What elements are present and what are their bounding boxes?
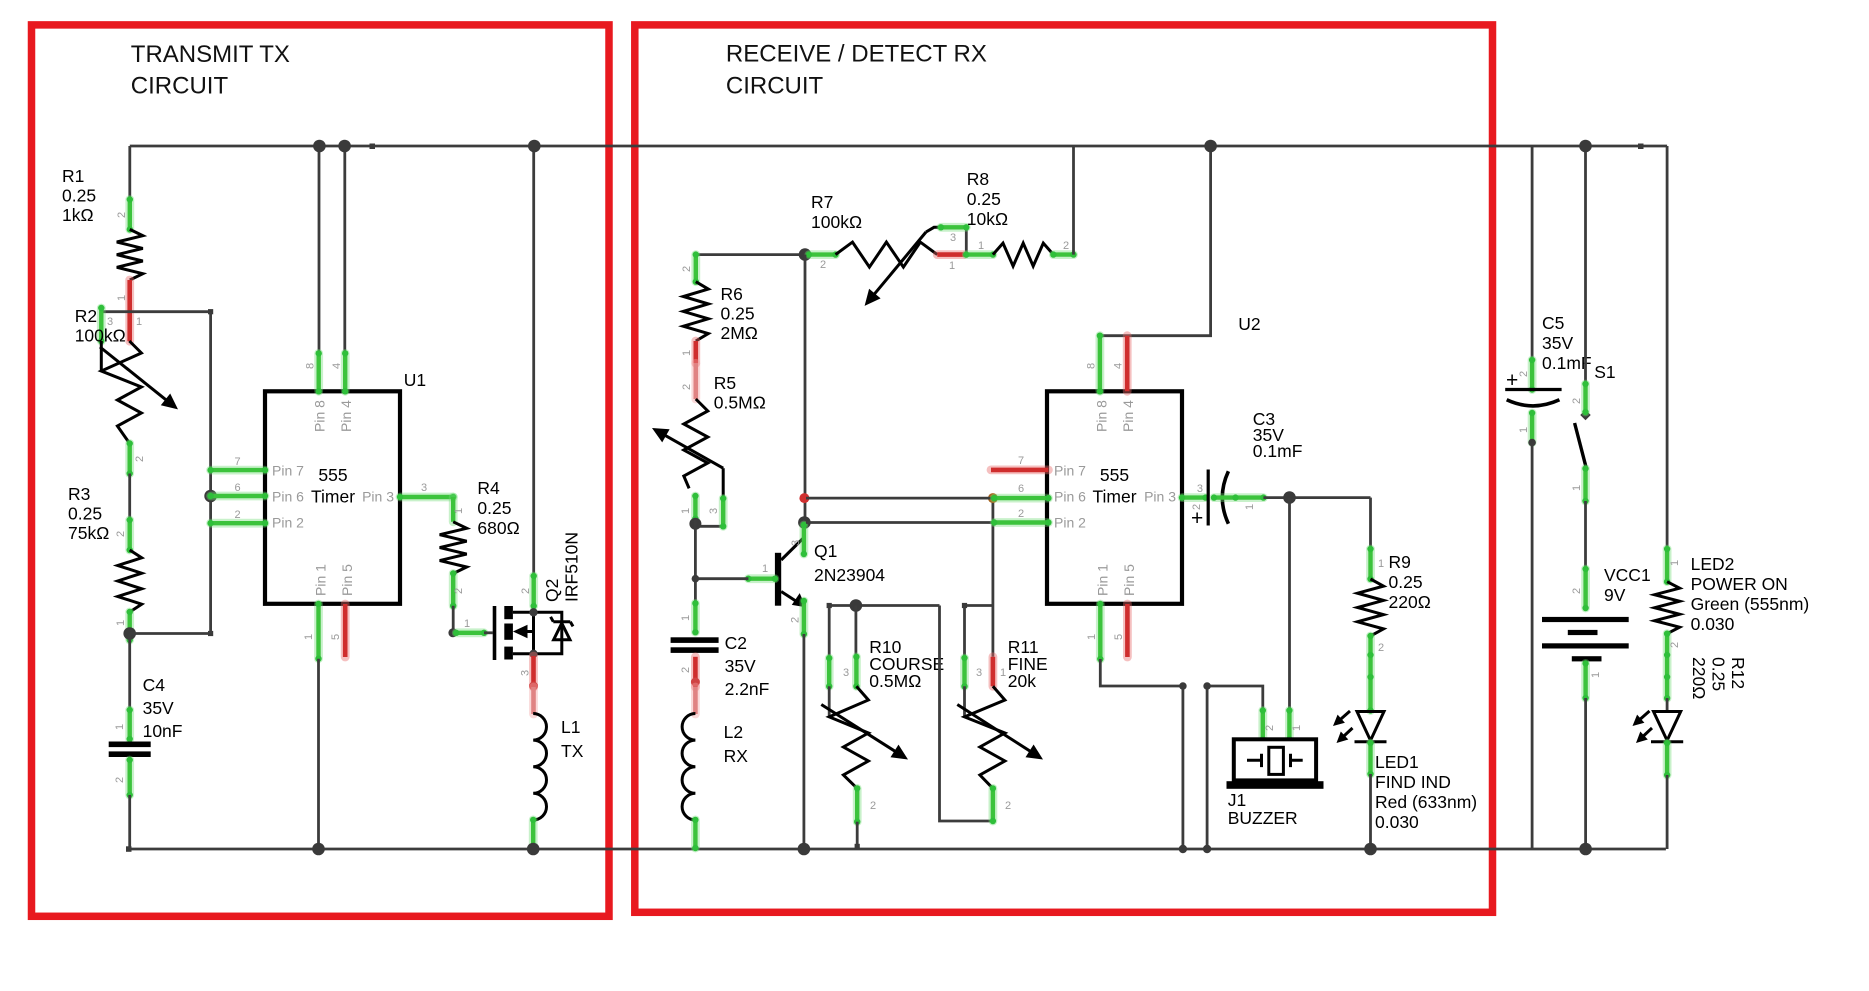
pin U1 Pin2 label <box>272 515 304 531</box>
pin R8-1 number <box>978 240 984 252</box>
svg-text:35V: 35V <box>143 698 174 718</box>
svg-text:1: 1 <box>762 563 768 575</box>
wire R10 pin2 to ground <box>855 822 860 849</box>
svg-text:2: 2 <box>234 509 240 521</box>
svg-text:1: 1 <box>978 240 984 252</box>
label U1 <box>404 370 426 390</box>
svg-text:R3: R3 <box>68 484 90 504</box>
label S1 <box>1594 362 1615 382</box>
node R6 pin1 pad (red) <box>691 341 700 363</box>
svg-text:BUZZER: BUZZER <box>1228 808 1298 828</box>
node J1 pin2 pad <box>1260 707 1266 742</box>
inductor L1 <box>533 714 546 820</box>
svg-text:L1: L1 <box>561 717 580 737</box>
pin Q1-2 number <box>790 617 802 623</box>
svg-text:680Ω: 680Ω <box>477 518 519 538</box>
potentiometer R2 body <box>100 341 178 444</box>
node Q2 source pad (red) <box>529 656 538 691</box>
wire buzzer pin2 to ground <box>1203 682 1263 853</box>
junction R5 node <box>689 518 701 530</box>
label R5 value <box>714 373 766 413</box>
svg-text:2: 2 <box>1063 240 1069 252</box>
label C4 value <box>143 675 183 741</box>
svg-text:0.5MΩ: 0.5MΩ <box>869 671 921 691</box>
svg-text:1: 1 <box>453 508 465 514</box>
node L1 pin2 pad <box>530 817 536 852</box>
junction R10 pin1 tap <box>850 599 863 612</box>
wire U2 pin6 lead <box>806 497 1048 500</box>
svg-text:R7: R7 <box>811 192 833 212</box>
svg-text:RECEIVE / DETECT RX: RECEIVE / DETECT RX <box>726 41 987 68</box>
svg-text:U1: U1 <box>404 370 426 390</box>
buzzer J1 <box>1227 739 1324 789</box>
wire R10 pin3 drop <box>828 606 831 659</box>
pin U1 Pin8 label <box>312 400 328 432</box>
wire C4 bottom lead <box>128 795 131 849</box>
node U1 pin5 stub (red) <box>341 604 350 657</box>
pin Q1-3 number <box>790 540 802 546</box>
node R2 pin2 pad <box>127 440 133 476</box>
wire C3 to junction <box>1263 496 1370 499</box>
svg-text:2: 2 <box>681 384 693 390</box>
junction Q1 collector/pin6 net (red) <box>799 493 809 503</box>
svg-text:Pin 4: Pin 4 <box>1120 400 1136 432</box>
svg-text:C2: C2 <box>725 633 747 653</box>
svg-text:75kΩ: 75kΩ <box>68 523 109 543</box>
pin U1-1 number <box>303 634 315 640</box>
label C5 value <box>1542 313 1592 373</box>
pin U2-3 number <box>1197 483 1203 495</box>
pin U2-4 number <box>1113 363 1125 369</box>
wire U2 pin1 to ground <box>1100 659 1187 853</box>
svg-text:R5: R5 <box>714 373 736 393</box>
node J1 pin1 pad <box>1286 707 1292 742</box>
svg-text:0.1mF: 0.1mF <box>1253 441 1303 461</box>
junction rail/Q2 drain <box>528 140 541 153</box>
svg-text:+: + <box>1506 369 1518 392</box>
svg-text:2: 2 <box>1571 398 1583 404</box>
pin U1-6 number <box>234 482 240 494</box>
svg-text:2: 2 <box>115 531 127 537</box>
pin U2 Pin5 label <box>1121 564 1137 596</box>
node U1 pin6 pad <box>207 493 268 499</box>
node C3 pin1 pad <box>1211 494 1267 500</box>
pin R10-2 number <box>870 800 876 812</box>
LED LED2 <box>1633 711 1684 743</box>
svg-text:0.25: 0.25 <box>477 498 511 518</box>
svg-text:Pin 4: Pin 4 <box>338 400 354 432</box>
junction rail/S1 <box>1579 140 1592 153</box>
pin C2-2 number <box>680 667 692 673</box>
svg-text:6: 6 <box>234 482 240 494</box>
node R11 pin1 pad (red) <box>989 657 998 687</box>
svg-text:2: 2 <box>1378 642 1384 654</box>
pin U1 Pin5 label <box>339 564 355 596</box>
label LED2 value <box>1691 554 1810 634</box>
potentiometer R7 body <box>836 227 967 306</box>
node U1 pin1 pad <box>315 601 321 662</box>
op-amp U1 555 box <box>265 391 400 604</box>
junction C3 output node <box>1283 491 1296 504</box>
svg-text:0.5MΩ: 0.5MΩ <box>714 393 766 413</box>
transistor Q2 IRF510N <box>495 606 574 660</box>
junction Q1 collector/pin2 net <box>798 516 811 529</box>
node S1 pin1 pad <box>1582 465 1588 504</box>
pin U1-8 number <box>305 363 317 369</box>
svg-text:4: 4 <box>1113 363 1125 369</box>
pin R2-1 number <box>136 316 142 328</box>
node VCC1 pin2 pad <box>1582 566 1588 611</box>
svg-text:2MΩ: 2MΩ <box>721 323 758 343</box>
svg-text:Pin 6: Pin 6 <box>272 488 304 504</box>
node U2 pin1 pad <box>1097 601 1103 662</box>
svg-text:RX: RX <box>724 746 749 766</box>
pin J1-2 number <box>1264 725 1276 731</box>
svg-text:2: 2 <box>790 617 802 623</box>
svg-text:Timer: Timer <box>1092 487 1136 507</box>
label R2 value <box>75 306 126 346</box>
pin U1-3 number <box>421 482 427 494</box>
pin R7-2 number <box>820 259 826 271</box>
wire U1 pin8 riser <box>318 146 321 355</box>
svg-text:4: 4 <box>331 363 343 369</box>
svg-text:Pin 6: Pin 6 <box>1054 488 1086 504</box>
svg-text:10nF: 10nF <box>143 721 183 741</box>
svg-text:5: 5 <box>1113 634 1125 640</box>
svg-text:3: 3 <box>708 508 720 514</box>
svg-text:R6: R6 <box>721 284 743 304</box>
svg-text:2.2nF: 2.2nF <box>725 679 770 699</box>
svg-text:2: 2 <box>520 588 532 594</box>
svg-text:555: 555 <box>318 465 347 485</box>
pin S1-1 number <box>1571 485 1583 491</box>
node R7 pin3 pad <box>938 224 970 230</box>
svg-text:220Ω: 220Ω <box>1689 657 1709 699</box>
svg-text:35V: 35V <box>725 656 756 676</box>
node U2 pin2 pad <box>991 519 1052 525</box>
svg-text:3: 3 <box>1197 483 1203 495</box>
node R8 pin1 pad <box>963 251 996 257</box>
wire mid vertical (R2-3 to pins) <box>209 312 212 634</box>
svg-text:Green (555nm): Green (555nm) <box>1691 594 1810 614</box>
label R10 value <box>869 637 944 691</box>
svg-text:Pin 3: Pin 3 <box>1144 488 1176 504</box>
svg-text:1: 1 <box>949 260 955 272</box>
frame TRANSMIT TX CIRCUIT box <box>32 25 610 916</box>
svg-text:9V: 9V <box>1604 585 1626 605</box>
svg-text:2: 2 <box>1191 504 1203 510</box>
node R12/LED2 mid pads <box>1664 631 1670 702</box>
svg-text:8: 8 <box>1086 363 1098 369</box>
node R10 pin2 pad <box>854 785 860 825</box>
junction ground/U1pin1 <box>312 843 325 856</box>
pin R11-1 number <box>1000 667 1006 679</box>
node R10 pin1 pad <box>853 654 859 690</box>
node U2 pin8 pad <box>1097 333 1103 395</box>
node S1 pin2 pad <box>1582 381 1588 415</box>
svg-text:10kΩ: 10kΩ <box>967 209 1008 229</box>
svg-text:0.25: 0.25 <box>1389 572 1423 592</box>
svg-text:Pin 7: Pin 7 <box>1054 462 1086 478</box>
wire R10 pin1 drop <box>855 606 858 657</box>
svg-text:Pin 8: Pin 8 <box>312 400 328 432</box>
pin U2-1 number <box>1086 634 1098 640</box>
svg-text:TX: TX <box>561 741 584 761</box>
svg-text:2: 2 <box>116 212 128 218</box>
svg-text:2N23904: 2N23904 <box>814 565 885 585</box>
wire ground bottom rail <box>126 846 1666 852</box>
pin R2-3 number <box>107 316 113 328</box>
resistor R4 <box>440 522 467 574</box>
node R1 pin2 pad <box>127 196 133 232</box>
pin R6-1 number <box>681 350 693 356</box>
pin C3-1 number <box>1244 504 1256 510</box>
label R12 value (rotated) <box>1689 657 1748 699</box>
svg-text:2: 2 <box>453 588 465 594</box>
svg-text:Red (633nm): Red (633nm) <box>1375 792 1477 812</box>
node LED2 pin1 pad <box>1664 546 1670 585</box>
capacitor C2 <box>671 637 719 653</box>
svg-text:1: 1 <box>1291 725 1303 731</box>
pin R3-1 number <box>115 620 127 626</box>
wire R4 to gate corner <box>452 606 455 633</box>
svg-text:1: 1 <box>1590 672 1602 678</box>
svg-text:TRANSMIT TX: TRANSMIT TX <box>131 41 290 68</box>
node R5 pin3 pad <box>720 495 726 529</box>
wire Q2 source to L1 (red) <box>529 687 538 714</box>
svg-text:100kΩ: 100kΩ <box>75 326 126 346</box>
wire R1 top lead <box>128 146 131 200</box>
node LED1 pin2 pad <box>1367 740 1373 777</box>
junction ground/VCC1 <box>1579 843 1592 856</box>
pin R9-2 number <box>1378 642 1384 654</box>
svg-text:1: 1 <box>116 295 128 301</box>
wire R5 node down <box>694 519 697 604</box>
pin Q2-3 number <box>520 670 532 676</box>
label Q1 2N23904 <box>814 541 885 585</box>
wire Q1 base lead <box>695 577 748 580</box>
node U1 pin2 pad <box>207 520 268 526</box>
svg-text:2: 2 <box>680 667 692 673</box>
svg-text:7: 7 <box>1018 455 1024 467</box>
title TRANSMIT TX CIRCUIT <box>131 41 290 100</box>
svg-text:R4: R4 <box>477 478 500 498</box>
svg-text:2: 2 <box>1571 588 1583 594</box>
wire gate link <box>484 631 493 634</box>
resistor R12 <box>1655 582 1680 634</box>
svg-text:Pin 5: Pin 5 <box>339 564 355 596</box>
svg-text:0.030: 0.030 <box>1691 614 1735 634</box>
wire junction to midvert <box>130 631 214 636</box>
pin U1 Pin3 label <box>362 488 394 504</box>
svg-text:8: 8 <box>305 363 317 369</box>
pin U1-5 number <box>330 634 342 640</box>
svg-text:1: 1 <box>114 724 126 730</box>
pin R5-1 number <box>680 508 692 514</box>
label LED1 value <box>1375 752 1477 832</box>
svg-text:2: 2 <box>1264 725 1276 731</box>
node U1 pin7 pad <box>207 467 268 473</box>
svg-text:2: 2 <box>870 800 876 812</box>
node R7 pin2 pad <box>806 251 839 257</box>
pin R5-3 number <box>708 508 720 514</box>
pin R4-1 number <box>453 508 465 514</box>
wire S1 riser <box>1584 146 1587 384</box>
pin R11-2 number <box>1005 800 1011 812</box>
junction Q2 source/diode <box>529 650 537 658</box>
node C2 pin1 pad <box>692 600 698 635</box>
wire R10 right branch <box>940 606 993 822</box>
wire R10 top <box>827 603 940 608</box>
node R5 pin1 pad <box>692 493 698 522</box>
svg-text:Q1: Q1 <box>814 541 837 561</box>
pin C5-1 number <box>1518 427 1530 433</box>
svg-text:1: 1 <box>115 620 127 626</box>
wire R11 pin3 drop <box>963 606 966 659</box>
pin Q1-1 number <box>762 563 768 575</box>
svg-text:1: 1 <box>1669 560 1681 566</box>
svg-text:Pin 2: Pin 2 <box>272 515 304 531</box>
wire U1 pin1 to ground <box>317 659 320 849</box>
pin C4-1 number <box>114 724 126 730</box>
pin R1-1 number <box>116 295 128 301</box>
svg-text:FIND IND: FIND IND <box>1375 772 1451 792</box>
pin Q2-2 number <box>520 588 532 594</box>
node L2 pin2 pad <box>692 817 698 852</box>
pin LED2-2 number <box>1669 642 1681 648</box>
battery VCC1 9V <box>1542 617 1629 662</box>
node R5 pin2 pad (light red) <box>691 363 700 399</box>
svg-text:220Ω: 220Ω <box>1389 592 1431 612</box>
svg-text:2: 2 <box>1005 800 1011 812</box>
svg-text:0.25: 0.25 <box>62 186 96 206</box>
potentiometer R11 body <box>957 686 1043 788</box>
svg-text:1: 1 <box>303 634 315 640</box>
svg-text:1: 1 <box>464 618 470 630</box>
svg-text:1: 1 <box>1518 427 1530 433</box>
wire U2 pin8/pin4 top link <box>1100 146 1211 336</box>
junction rail/U2 riser <box>1204 140 1217 153</box>
pin R4-2 number <box>453 588 465 594</box>
svg-text:3: 3 <box>790 540 802 546</box>
pin U2-6 number <box>1018 483 1024 495</box>
capacitor C4 <box>109 742 151 758</box>
svg-text:2: 2 <box>1518 371 1530 377</box>
pin U1-7 number <box>234 456 240 468</box>
title RECEIVE / DETECT RX CIRCUIT <box>726 41 987 100</box>
label R9 value <box>1389 552 1431 612</box>
junction ground/LED1 <box>1364 843 1377 856</box>
svg-text:3: 3 <box>950 232 956 244</box>
svg-text:0.030: 0.030 <box>1375 812 1419 832</box>
svg-text:1: 1 <box>1244 504 1256 510</box>
label R1 value <box>62 166 96 225</box>
svg-text:6: 6 <box>1018 483 1024 495</box>
wire R10 pin3 body link <box>828 686 831 717</box>
svg-text:Pin 3: Pin 3 <box>362 488 394 504</box>
pin U1 Pin7 label <box>272 462 304 478</box>
label L1 TX <box>561 717 584 761</box>
pin U2 Pin2 label <box>1054 515 1086 531</box>
resistor R8 <box>993 243 1054 266</box>
wire R12 to LED2 <box>1666 698 1669 711</box>
potentiometer R10 body <box>821 686 908 788</box>
node R9 pin1 pad <box>1367 546 1373 582</box>
capacitor C5 <box>1505 369 1561 406</box>
node C2 pin2 pad (red) <box>691 657 700 687</box>
svg-text:1: 1 <box>1378 558 1384 570</box>
wire R7 node drop <box>804 255 807 525</box>
pin U2 Pin4 label <box>1120 400 1136 432</box>
svg-text:R12: R12 <box>1728 657 1748 689</box>
label L2 RX <box>724 722 749 766</box>
pin U2 Pin8 label <box>1094 400 1110 432</box>
svg-text:100kΩ: 100kΩ <box>811 212 862 232</box>
node U2 pin6 pad <box>991 495 1052 501</box>
switch S1 <box>1575 410 1591 469</box>
svg-text:3: 3 <box>421 482 427 494</box>
svg-text:1: 1 <box>136 316 142 328</box>
pin VCC1-1 number <box>1590 672 1602 678</box>
svg-text:35V: 35V <box>1542 333 1573 353</box>
svg-text:CIRCUIT: CIRCUIT <box>131 73 229 100</box>
junction gate corner <box>448 628 457 637</box>
svg-text:1: 1 <box>1000 667 1006 679</box>
svg-text:CIRCUIT: CIRCUIT <box>726 73 824 100</box>
svg-text:R2: R2 <box>75 306 97 326</box>
pin U2-8 number <box>1086 363 1098 369</box>
svg-text:POWER ON: POWER ON <box>1691 574 1788 594</box>
svg-text:2: 2 <box>114 777 126 783</box>
node U1 pin4 pad <box>342 350 348 394</box>
wire Q2 drain riser <box>532 146 535 576</box>
node R1 pin1 / R2 pin1 pad (red) <box>125 280 134 341</box>
wire R11 top <box>962 603 993 608</box>
svg-text:2: 2 <box>820 259 826 271</box>
node R4 pin2 pad <box>450 570 456 609</box>
pin S1-2 number <box>1571 398 1583 404</box>
svg-text:C5: C5 <box>1542 313 1564 333</box>
pin R7-3 number <box>950 232 956 244</box>
svg-text:J1: J1 <box>1228 790 1246 810</box>
node C4 pin2 pad <box>127 757 133 798</box>
pin U1 Pin1 label <box>313 564 329 596</box>
wire R8 riser to rail <box>1072 146 1075 255</box>
label R6 value <box>721 284 758 343</box>
node R8 pin2 pad <box>1050 251 1077 257</box>
node R6 pin2 pad <box>693 251 699 284</box>
svg-text:Pin 2: Pin 2 <box>1054 515 1086 531</box>
pin R11-3 number <box>976 667 982 679</box>
node U1 pin8 pad <box>316 350 322 394</box>
svg-text:L2: L2 <box>724 722 743 742</box>
pin R8-2 number <box>1063 240 1069 252</box>
pin R1-2 number <box>116 212 128 218</box>
label U1 555 Timer <box>311 465 355 507</box>
pin U2 Pin1 label <box>1095 564 1111 596</box>
junction R6/R7/Q1 node <box>799 248 812 261</box>
resistor R1 <box>117 229 143 280</box>
label C2 value <box>725 633 770 699</box>
svg-text:VCC1: VCC1 <box>1604 565 1651 585</box>
svg-text:3: 3 <box>520 670 532 676</box>
label C3 value <box>1253 409 1303 461</box>
node U1 pin3 pad <box>397 494 457 522</box>
node LED2 pin2 pad <box>1664 740 1670 778</box>
pin LED2-1 number <box>1669 560 1681 566</box>
svg-text:R9: R9 <box>1389 552 1411 572</box>
node C4 pin1 pad <box>127 707 133 742</box>
